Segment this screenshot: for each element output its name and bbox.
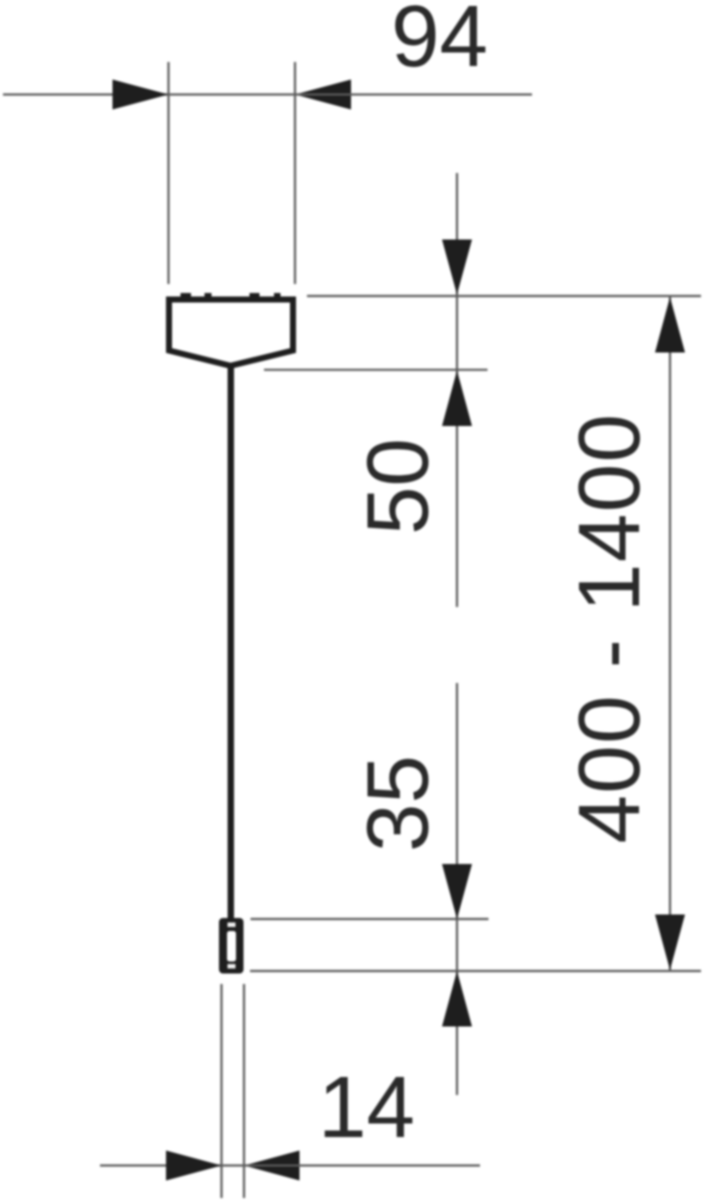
dimension 94: left extension line — [167, 62, 169, 284]
canopy: body outline (side walls and tapered bottom) — [169, 299, 293, 366]
dimension 400-1400: vertical line — [669, 297, 671, 970]
dimension 14: right extension line — [243, 984, 245, 1198]
dimension 35: down arrowhead — [442, 864, 472, 919]
dimension 50: down arrowhead — [442, 240, 472, 295]
dimension 94: left tail line — [3, 93, 169, 95]
dimension 14: right arrowhead — [244, 1151, 300, 1181]
dimension 94: left arrowhead — [113, 80, 169, 110]
dimension 35: vertical line — [456, 683, 458, 1095]
extension line at end piece top (for 35 dimension) — [251, 918, 489, 920]
dimension 35: up arrowhead — [442, 971, 472, 1027]
canopy: top edge — [166, 297, 296, 303]
extension line at end piece bottom (to 400-1400 dimension) — [250, 970, 701, 972]
svg-text:94: 94 — [391, 0, 488, 85]
dimension 14: left extension line — [220, 984, 222, 1198]
dimension 14: right tail line — [244, 1164, 480, 1166]
dimension 94: right extension line — [294, 62, 296, 284]
dimension 14: left tail line — [100, 1164, 222, 1166]
dimension 14: left arrowhead — [166, 1151, 222, 1181]
suspension cable — [228, 364, 234, 920]
extension line at canopy top (to 400-1400 dimension) — [307, 295, 701, 297]
canopy: notch 1 — [181, 293, 192, 298]
dimension 94: right tail line — [295, 93, 532, 95]
dimension 50: vertical line — [456, 173, 458, 607]
dimension 400-1400: up arrowhead — [655, 297, 685, 353]
canopy: notch 2 — [205, 293, 212, 298]
canopy: notch 3 — [250, 293, 260, 298]
svg-text:35: 35 — [350, 755, 447, 852]
dimension 94: right arrowhead — [295, 80, 351, 110]
extension line at canopy bottom (for 50 dimension) — [264, 369, 488, 371]
svg-text:50: 50 — [350, 438, 447, 535]
cable end piece: top notch — [228, 923, 236, 928]
dimension 400-1400: down arrowhead — [655, 915, 685, 971]
dimension 94: line between extension lines — [169, 93, 296, 95]
dimension 14: line between extension lines — [222, 1164, 245, 1166]
dimension 50: up arrowhead — [442, 371, 472, 427]
cable end piece: bottom notch — [228, 964, 236, 969]
cable end piece: inner slot — [227, 931, 236, 962]
svg-text:400 - 1400: 400 - 1400 — [561, 412, 658, 843]
cable end piece: body — [219, 918, 244, 974]
canopy: notch 4 — [274, 293, 281, 298]
svg-text:14: 14 — [318, 1059, 415, 1156]
